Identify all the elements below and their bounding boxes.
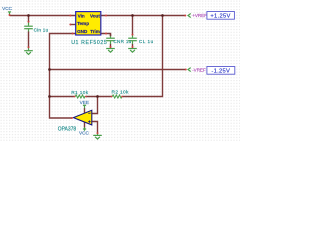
svg-text:R1 10k: R1 10k <box>71 90 89 96</box>
op-amp plus sign (non-inverting input) <box>88 121 90 123</box>
node +VREF arrow <box>188 14 191 18</box>
pin end marker op-amp ground <box>97 132 99 134</box>
pin end marker VCC flag <box>9 14 11 16</box>
VCC jumper below op-amp <box>83 127 86 131</box>
svg-text:CNR 1u: CNR 1u <box>113 39 131 44</box>
junction node divider at left vertical <box>48 95 51 98</box>
svg-text:Vin: Vin <box>78 14 85 19</box>
wire op-amp VCC stub <box>84 122 86 128</box>
junction node top rail at Cin <box>27 14 30 17</box>
pin end marker R1 left <box>74 96 76 98</box>
pin end marker Trim <box>105 33 107 35</box>
svg-text:R2 10k: R2 10k <box>112 90 130 96</box>
junction node -VREF at left vertical <box>48 68 51 71</box>
wire Cin drop <box>28 16 30 23</box>
wire top rail left: VCC to U1 Vin <box>10 15 76 17</box>
wire CL drop <box>132 16 134 35</box>
svg-text:VCC: VCC <box>2 6 13 11</box>
pin end marker +VREF <box>184 15 186 17</box>
pin end marker R2 right <box>121 96 123 98</box>
voltage pin -1.25V box <box>207 67 235 75</box>
svg-text:Cin 1u: Cin 1u <box>34 27 49 32</box>
resistor R2 10k <box>112 95 123 98</box>
junction node divider midpoint <box>96 95 99 98</box>
svg-text:+1.25V: +1.25V <box>210 14 230 20</box>
pin end marker R1 right <box>85 96 87 98</box>
voltage pin +1.25V box <box>207 12 235 20</box>
wire Temp stub <box>70 24 75 26</box>
wire CL to ground <box>132 44 134 47</box>
wire divider left segment <box>50 96 75 98</box>
svg-text:CL 1u: CL 1u <box>139 39 154 44</box>
wire CNR lead red part <box>110 34 112 37</box>
wire top rail right: U1 Vout to +VREF <box>101 15 186 17</box>
capacitor CNR <box>106 36 115 44</box>
svg-text:Temp: Temp <box>77 21 89 26</box>
wire Cin bottom to ground <box>28 31 30 47</box>
pin end marker R2 left <box>111 96 113 98</box>
svg-text:OPA378: OPA378 <box>58 126 77 132</box>
wire U1 GND pin left and down <box>50 34 76 119</box>
op-amp minus sign (inverting input) <box>88 112 90 114</box>
wire op-amp non-inverting input to ground <box>92 122 98 134</box>
ground below Cin <box>24 48 33 55</box>
svg-text:-1.25V: -1.25V <box>211 69 230 75</box>
pin end marker CNR ground <box>110 46 112 48</box>
svg-text:U1 REF5025: U1 REF5025 <box>71 40 107 46</box>
wire -VREF rail <box>50 69 186 71</box>
svg-text:+VREF: +VREF <box>192 13 207 18</box>
pin end marker op-amp output <box>71 117 73 119</box>
pin end marker CL ground <box>132 46 134 48</box>
pin end marker CL top <box>132 34 134 36</box>
VCC power flag top-left <box>8 12 11 16</box>
resistor R1 10k <box>74 95 85 98</box>
IC U1 REF5025 body <box>76 12 101 35</box>
svg-text:Trim: Trim <box>90 29 100 34</box>
pin end marker Vout <box>105 15 107 17</box>
svg-text:Vout: Vout <box>90 14 100 19</box>
pin end marker Cin ground <box>28 46 30 48</box>
VEE jumper above op-amp <box>83 105 86 108</box>
op-amp U2 OPA378 triangle <box>73 110 91 125</box>
wire CNR to ground <box>110 44 112 47</box>
node -VREF arrow <box>188 68 191 72</box>
wire U1 Trim pin <box>101 34 111 37</box>
wire op-amp inverting input from divider <box>92 97 98 114</box>
svg-text:VCC: VCC <box>79 130 90 135</box>
capacitor CL <box>128 34 137 44</box>
pin end marker Vin <box>69 15 71 17</box>
junction node top rail at R2 vertical <box>161 14 164 17</box>
pin end marker Temp <box>69 24 71 26</box>
pin end marker Cin top <box>28 21 30 23</box>
junction node top rail at CL <box>131 14 134 17</box>
svg-text:GND: GND <box>77 29 88 34</box>
ground below CL <box>128 47 137 52</box>
pin end marker -VREF <box>185 69 187 71</box>
svg-text:VEE: VEE <box>80 100 89 105</box>
capacitor Cin <box>24 22 33 32</box>
wire op-amp VEE stub <box>84 108 86 113</box>
ground below op-amp non-inverting input <box>93 133 102 139</box>
wire divider right segment to R2 vertical <box>122 16 162 97</box>
pin end marker GND <box>72 33 74 35</box>
ground below CNR <box>106 47 115 52</box>
wire divider mid segment <box>86 96 112 98</box>
svg-text:-VREF: -VREF <box>192 68 206 73</box>
